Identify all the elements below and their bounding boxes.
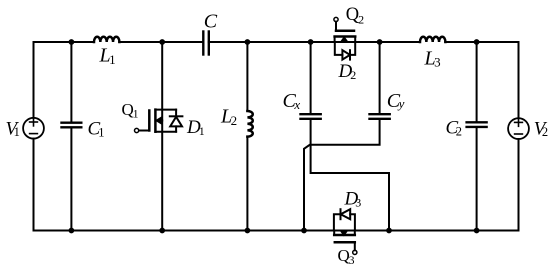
wire left edge upper [33, 42, 35, 118]
wire C1 branch lower [70, 129, 72, 231]
wire Cx top lead [310, 42, 312, 113]
wire Cx bottom lead crossing down to right bottom node [311, 120, 389, 231]
svg-text:D2: D2 [338, 61, 357, 82]
svg-text:L1: L1 [99, 45, 116, 68]
node bottom rail left of Q3 [301, 228, 307, 234]
node bottom rail C1 [69, 228, 75, 234]
svg-text:C1: C1 [88, 119, 105, 140]
svg-text:Q2: Q2 [346, 5, 364, 27]
wire L2 branch lower [246, 137, 248, 231]
svg-text:V1: V1 [6, 119, 20, 140]
wire top rail right-middle segment [209, 41, 420, 43]
node bottom rail L2 [245, 228, 251, 234]
transistor Q2 [334, 17, 355, 42]
wire bottom rail [34, 230, 519, 232]
svg-text:D1: D1 [186, 117, 205, 138]
voltage source V2 [508, 118, 529, 139]
capacitor C [203, 32, 209, 55]
capacitor C2 [467, 122, 487, 127]
svg-text:Cy: Cy [387, 90, 405, 112]
inductor L3 [420, 37, 445, 42]
svg-text:V2: V2 [534, 119, 548, 140]
node bottom rail C2 [474, 228, 480, 234]
wire C1 branch upper [70, 42, 72, 122]
wire top rail right segment [445, 41, 518, 43]
node top rail Cx [308, 39, 314, 45]
wire C2 branch upper [476, 42, 478, 121]
wire Q1 branch (drain-source through line) [161, 42, 163, 231]
node bottom rail right of Q3 [386, 228, 392, 234]
node top rail Q1 [159, 39, 165, 45]
inductor L1 [94, 37, 119, 42]
svg-text:C: C [204, 10, 218, 32]
svg-text:Q3: Q3 [338, 246, 355, 267]
wire right edge lower [518, 139, 520, 231]
capacitor C1 [62, 123, 82, 128]
svg-text:L2: L2 [220, 105, 237, 128]
diode D3 (body diode of Q3) [334, 209, 355, 230]
wire L2 branch upper [246, 42, 248, 111]
node bottom rail Q1 [159, 228, 165, 234]
transistor Q1 [135, 110, 177, 133]
svg-text:Cx: Cx [283, 90, 301, 112]
node top rail L2 [245, 39, 251, 45]
wire top rail middle segment [119, 41, 203, 43]
diode D1 (body diode of Q1) [170, 110, 183, 132]
node top rail C1 [69, 39, 75, 45]
svg-text:Q1: Q1 [122, 100, 139, 121]
svg-text:C2: C2 [446, 118, 462, 139]
capacitor Cx [301, 114, 321, 119]
node top rail Cy [377, 39, 383, 45]
inductor L2 [247, 111, 252, 137]
wire Cy bottom lead crossing down to left bottom node [304, 120, 380, 231]
diode D2 (body diode of Q2) [335, 42, 355, 60]
voltage source V1 [23, 118, 44, 139]
wire Cy top lead [379, 42, 381, 113]
svg-text:L3: L3 [424, 47, 441, 69]
capacitor Cy [370, 114, 390, 119]
transistor Q3 [334, 231, 357, 255]
wire C2 branch lower [476, 128, 478, 231]
svg-text:D3: D3 [344, 189, 362, 210]
wire right edge upper [518, 42, 520, 118]
node top rail C2 [474, 39, 480, 45]
wire top rail left segment [34, 41, 95, 43]
wire left edge lower [33, 139, 35, 231]
